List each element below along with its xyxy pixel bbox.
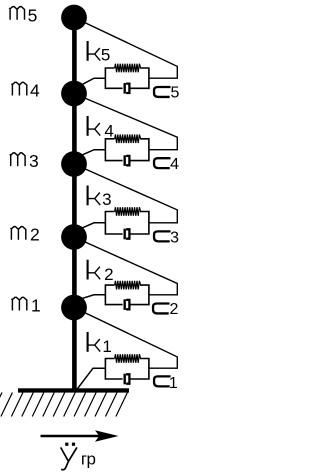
svg-text:2: 2 <box>104 265 113 284</box>
ground hatching <box>0 393 127 417</box>
spring k2 zigzag <box>115 281 141 290</box>
element box 2 (spring-damper housing) <box>105 285 148 305</box>
label m1 <box>12 297 27 310</box>
damper c1 cup <box>126 374 129 383</box>
svg-text:4: 4 <box>170 156 179 173</box>
label c5 <box>154 86 170 97</box>
damper c5 cup <box>126 84 129 93</box>
svg-text:4: 4 <box>30 80 40 100</box>
svg-text:гр: гр <box>81 450 96 469</box>
ground line <box>18 388 129 392</box>
svg-text:5: 5 <box>101 46 110 65</box>
svg-text:5: 5 <box>171 85 180 102</box>
svg-text:2: 2 <box>170 301 179 318</box>
label k1 <box>88 332 101 352</box>
damper c3 cup <box>126 229 129 238</box>
wire: diagonal from mass m2 to element 2 right corner <box>74 237 177 295</box>
mass m1 (lumped storey mass) <box>61 295 87 321</box>
spring k5 zigzag <box>115 64 141 73</box>
label m4 <box>12 82 27 95</box>
wire: element 4 left connection <box>83 150 106 155</box>
svg-text:3: 3 <box>102 190 111 209</box>
damper c2 cup <box>126 300 129 309</box>
wire: element 1 left connection <box>77 368 106 390</box>
svg-text:3: 3 <box>29 151 39 171</box>
mass m2 (lumped storey mass) <box>61 224 87 250</box>
svg-text:3: 3 <box>170 229 179 246</box>
svg-text:1: 1 <box>169 375 178 392</box>
element box 3 (spring-damper housing) <box>105 212 148 235</box>
label k4 <box>88 116 101 136</box>
label c1 <box>154 375 170 386</box>
label m2 <box>11 227 26 240</box>
spring k3 zigzag <box>115 207 141 216</box>
svg-text:4: 4 <box>104 122 113 141</box>
svg-text:1: 1 <box>102 337 111 356</box>
wire: diagonal from mass m4 to element 4 right corner <box>74 94 177 150</box>
ground acceleration arrow <box>41 435 101 437</box>
mass m5 (lumped storey mass) <box>61 5 87 31</box>
element box 1 (spring-damper housing) <box>105 359 148 380</box>
label m3 <box>10 153 25 166</box>
label k2 <box>88 260 101 280</box>
label k3 <box>88 186 101 206</box>
label c3 <box>154 230 170 241</box>
label m5 <box>9 7 24 20</box>
damper c4 piston plate <box>123 155 125 166</box>
damper c2 piston plate <box>123 299 125 310</box>
wire: diagonal from mass m1 to element 1 right corner <box>74 308 177 369</box>
mass m3 (lumped storey mass) <box>61 151 87 177</box>
mass m4 (lumped storey mass) <box>61 81 87 107</box>
label k5 <box>88 41 101 61</box>
element box 4 (spring-damper housing) <box>105 139 148 161</box>
label c4 <box>154 157 170 168</box>
wire: diagonal from mass m3 to element 3 right corner <box>74 164 177 223</box>
label ÿ (ground acceleration) <box>61 448 77 470</box>
wire: element 5 left connection <box>83 78 106 84</box>
label c2 <box>153 302 169 313</box>
svg-text:2: 2 <box>30 224 40 244</box>
wire: diagonal from mass m5 to element 5 right corner <box>74 18 177 79</box>
element box 5 (spring-damper housing) <box>105 68 148 88</box>
spring k1 zigzag <box>115 354 141 363</box>
svg-text:5: 5 <box>28 5 38 25</box>
wire: element 2 left connection <box>83 295 106 299</box>
damper c3 piston plate <box>123 229 125 240</box>
spring k4 zigzag <box>115 135 141 144</box>
svg-text:1: 1 <box>31 296 41 316</box>
wire: element 3 left connection <box>83 223 106 228</box>
damper c5 piston plate <box>123 83 125 94</box>
damper c1 piston plate <box>123 374 125 385</box>
damper c4 cup <box>126 156 129 165</box>
column (building shear frame) <box>72 15 77 391</box>
